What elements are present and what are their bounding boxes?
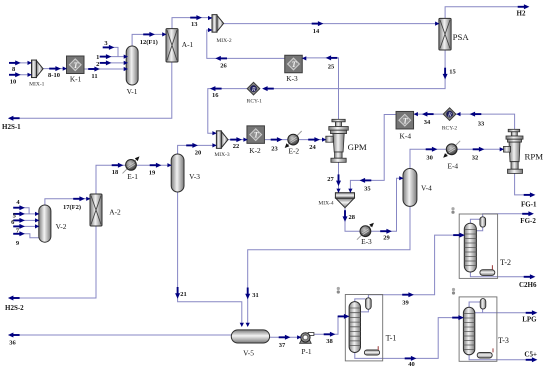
reactor GPM (326, 119, 349, 162)
arrow stream C2H6 (524, 274, 536, 279)
wire stream 17(F2) (45, 199, 90, 206)
svg-text:9: 9 (16, 240, 20, 247)
wire stream 15 to RCY-1 (266, 50, 445, 89)
svg-text:MIX-2: MIX-2 (216, 38, 232, 44)
wire T-2 condenser piping (470, 219, 480, 223)
svg-text:10: 10 (10, 79, 17, 86)
cooler E-4 (443, 141, 460, 158)
svg-text:39: 39 (402, 300, 409, 307)
arrow stream FG-1 (524, 192, 536, 197)
svg-text:23: 23 (271, 146, 278, 153)
arrow stream 4 (13, 205, 25, 210)
svg-text:K-2: K-2 (249, 146, 261, 155)
svg-text:H2S-1: H2S-1 (2, 123, 21, 131)
svg-text:15: 15 (449, 69, 456, 76)
svg-text:V-4: V-4 (421, 184, 432, 193)
svg-text:1: 1 (96, 54, 99, 61)
column block T-2 (459, 214, 497, 278)
svg-text:A-2: A-2 (109, 207, 121, 216)
svg-text:LPG: LPG (522, 316, 537, 324)
svg-text:FG-2: FG-2 (520, 217, 536, 225)
wire stream 31 V-4 bottoms to V-5 (248, 206, 410, 326)
svg-text:24: 24 (309, 144, 316, 151)
mixer MIX-2 (212, 15, 224, 33)
svg-text:31: 31 (252, 292, 259, 299)
arrow stream 33 (470, 112, 482, 117)
svg-text:K-4: K-4 (400, 132, 412, 141)
arrow stream 10 (9, 72, 21, 77)
vessel V-1 (126, 46, 138, 85)
svg-text:36: 36 (9, 340, 16, 347)
arrow stream 17(F2) (73, 196, 85, 201)
vessel V-4 (403, 169, 417, 207)
arrow stream 1 (100, 54, 112, 59)
arrow stream 2 (100, 60, 112, 65)
wire stream 10 (10, 74, 32, 76)
wire T-1 condenser piping (355, 299, 366, 302)
badge T-3 (452, 288, 455, 295)
compressor K-3 (285, 55, 303, 73)
wire stream FG-2 (483, 214, 528, 217)
arrow stream FG-2 (522, 211, 534, 216)
svg-text:A-1: A-1 (182, 40, 194, 49)
svg-text:H2S-2: H2S-2 (5, 304, 24, 312)
svg-text:T-1: T-1 (386, 334, 397, 343)
inlet heads (28, 61, 32, 65)
arrow stream 9 (13, 231, 25, 236)
svg-text:19: 19 (149, 170, 156, 177)
wire stream 2 (102, 62, 128, 64)
arrow stream 20 (186, 143, 198, 148)
wire stream 14 (224, 23, 439, 25)
arrow stream 25 (326, 55, 338, 60)
wire stream 35 K-4 out to MIX-4 (350, 115, 396, 193)
svg-text:K-3: K-3 (286, 74, 298, 83)
arrow stream 5 (13, 211, 25, 216)
arrow stream 31 (245, 288, 250, 300)
column PSA (439, 18, 451, 50)
arrow into RCY-1 (262, 86, 274, 91)
arrow stream 32 (473, 147, 485, 152)
svg-text:27: 27 (327, 176, 334, 183)
svg-text:29: 29 (383, 235, 390, 242)
wire stream 36 (9, 334, 234, 336)
wire stream 19 (131, 164, 171, 166)
arrow stream 6 (13, 218, 25, 223)
vessel V-5 (231, 330, 269, 343)
arrow stream 22 (230, 137, 242, 142)
wire stream 3 (104, 47, 118, 56)
wire stream 4 (15, 208, 29, 214)
svg-text:37: 37 (279, 342, 286, 349)
wire stream 34 (413, 113, 443, 115)
column A-2 (90, 194, 102, 226)
svg-text:33: 33 (478, 121, 485, 128)
svg-text:28: 28 (349, 214, 356, 221)
wire T-3 condenser piping (469, 302, 480, 308)
arrow T-2 feed (453, 233, 465, 238)
svg-text:C2H6: C2H6 (519, 281, 537, 289)
wire stream 6 (15, 219, 39, 221)
arrow stream 30 (426, 147, 438, 152)
svg-text:12(F1): 12(F1) (140, 39, 158, 46)
vessel V-2 (39, 205, 51, 242)
svg-text:E-2: E-2 (288, 147, 299, 156)
energy tick T-3 reboiler (492, 348, 494, 352)
svg-text:22: 22 (233, 143, 240, 150)
wire stream 7 (15, 225, 39, 227)
svg-text:V-5: V-5 (243, 349, 254, 358)
svg-text:34: 34 (424, 119, 431, 126)
wire stream C5+ T-3 bottoms (469, 355, 531, 360)
wire stream 13 (172, 18, 212, 29)
svg-text:4: 4 (16, 199, 20, 206)
svg-text:21: 21 (180, 291, 187, 298)
arrow stream 18 (112, 163, 124, 168)
arrow stream 16 (210, 86, 222, 91)
arrow stream 39 (402, 292, 414, 297)
arrow stream 12(F1) (143, 32, 155, 37)
reactor RPM (504, 129, 524, 173)
arrow stream 15 (443, 68, 448, 80)
wire stream 33 RPM overhead (456, 114, 515, 129)
recycle RCY-2 (443, 108, 456, 121)
svg-text:FG-1: FG-1 (521, 200, 537, 208)
svg-text:32: 32 (472, 155, 479, 162)
wire stream C2H6 T-2 bottoms (470, 272, 529, 277)
arrow stream H2S-1 (8, 116, 20, 121)
svg-text:30: 30 (426, 155, 433, 162)
svg-text:20: 20 (195, 150, 202, 157)
wire stream H2S-2 from A-2 bottoms (9, 226, 96, 299)
svg-text:C5+: C5+ (524, 350, 537, 358)
wire stream 27 (338, 162, 340, 193)
svg-text:V-2: V-2 (56, 222, 67, 231)
badge T-2 (451, 207, 454, 214)
badge T-1 (337, 287, 340, 294)
svg-text:18: 18 (112, 169, 119, 176)
svg-text:V-3: V-3 (189, 172, 200, 181)
svg-text:25: 25 (328, 64, 335, 71)
wire stream 25 GPM overhead (302, 58, 338, 119)
svg-text:K-1: K-1 (70, 75, 82, 84)
svg-text:V-1: V-1 (127, 87, 138, 96)
wire T-1 reflux (361, 309, 369, 312)
svg-text:E-1: E-1 (127, 172, 138, 181)
arrow stream 37 (279, 335, 291, 340)
arrow stream 35 (360, 178, 372, 183)
heater E-3 (357, 223, 374, 240)
wire stream 16 (208, 89, 248, 134)
svg-text:E-4: E-4 (447, 162, 458, 171)
wire stream 39 T-1 overhead to T-2 (368, 235, 464, 298)
arrow stream 28 (343, 210, 348, 222)
mixer MIX-3 (216, 131, 228, 149)
wire stream H2 (445, 7, 528, 19)
arrow stream 19 (150, 163, 162, 168)
wire stream 21 V-3 bottoms to V-5 (178, 192, 242, 327)
svg-text:MIX-4: MIX-4 (318, 201, 334, 207)
wire stream 11 (84, 68, 127, 70)
wire T-2 reflux (476, 227, 482, 231)
arrow stream 29 (380, 229, 392, 234)
arrow stream 3 (103, 45, 115, 50)
wire RPM bottoms to FG-1 (515, 173, 534, 195)
wire stream 12(F1) (132, 34, 166, 46)
wire stream 38 (314, 316, 350, 334)
wire stream 28 (345, 208, 365, 232)
svg-text:11: 11 (91, 73, 97, 80)
compressor K-2 (247, 126, 265, 144)
svg-text:RPM: RPM (525, 152, 544, 162)
arrow stream H2 (518, 4, 530, 9)
svg-text:38: 38 (326, 338, 333, 345)
svg-text:MIX-3: MIX-3 (214, 152, 230, 158)
svg-text:T-3: T-3 (498, 336, 509, 345)
arrow stream 8-10 (49, 66, 61, 71)
compressor K-4 (396, 111, 414, 129)
arrow stream 24 (308, 137, 320, 142)
wire stream 23 (265, 139, 293, 141)
svg-text:8: 8 (12, 66, 16, 73)
svg-text:RCY-1: RCY-1 (247, 99, 263, 105)
arrow stream 8 (9, 60, 21, 65)
cooler E-2 (285, 131, 302, 148)
arrow stream C5+ (526, 357, 538, 362)
svg-text:13: 13 (191, 21, 198, 28)
arrow stream 38 (324, 332, 336, 337)
wire stream 1 (102, 56, 128, 58)
wire stream 32 (452, 148, 504, 150)
arrow stream 11 (88, 67, 100, 72)
wire stream 40 T-1 bottoms to T-3 (355, 318, 464, 359)
mixer MIX-4 (335, 193, 354, 208)
arrow stream 34 (422, 112, 434, 117)
wire stream 18 A-2 overhead to E-1 (96, 165, 131, 194)
svg-text:P-1: P-1 (301, 347, 312, 356)
wire stream 26 (207, 30, 285, 58)
arrow T-1 feed (338, 314, 350, 319)
arrow stream 13 (190, 15, 202, 20)
arrow stream 26 (215, 56, 227, 61)
arrow stream 21 (175, 287, 180, 299)
heater E-1 (123, 156, 140, 173)
svg-text:MIX-1: MIX-1 (29, 82, 45, 88)
wire stream LPG (475, 309, 531, 313)
arrow stream H2S-2 (8, 296, 20, 301)
svg-text:RCY-2: RCY-2 (442, 126, 458, 132)
wire stream 20 (178, 145, 217, 154)
arrow stream 36 (8, 333, 20, 338)
svg-text:35: 35 (364, 186, 371, 193)
wire stream 9 (15, 234, 39, 238)
svg-text:GPM: GPM (348, 142, 367, 152)
svg-text:2: 2 (96, 61, 99, 68)
vessel V-3 (171, 154, 184, 192)
compressor K-1 (67, 56, 85, 74)
recycle RCY-1 (247, 82, 260, 95)
mixer MIX-1 (32, 60, 44, 78)
arrow stream 14 (312, 21, 324, 26)
svg-text:T-2: T-2 (500, 258, 511, 267)
wire stream 37 (267, 336, 301, 338)
column A-1 (166, 29, 178, 62)
wire stream 29 (365, 178, 403, 231)
column block T-3 (459, 297, 497, 361)
svg-text:H2: H2 (517, 9, 526, 17)
svg-text:8-10: 8-10 (48, 72, 60, 79)
svg-text:3: 3 (104, 40, 108, 47)
wire stream 22 (228, 139, 247, 141)
svg-text:40: 40 (408, 361, 415, 368)
arrow stream LPG (526, 310, 538, 315)
wire stream 8 (10, 62, 32, 64)
pump P-1 (300, 333, 314, 344)
svg-text:PSA: PSA (453, 32, 470, 42)
arrow stream 27 (336, 174, 341, 186)
arrow stream 40 (405, 356, 417, 361)
arrow stream 23 (271, 137, 283, 142)
wire stream H2S-1 from A-1 bottoms (9, 62, 172, 118)
svg-text:26: 26 (220, 63, 227, 70)
wire stream 5 (15, 213, 39, 215)
energy tick T-2 reboiler (491, 265, 493, 270)
wire stream 24 (293, 139, 326, 141)
arrow T-3 feed (452, 315, 464, 320)
svg-text:17(F2): 17(F2) (63, 204, 81, 211)
svg-text:16: 16 (212, 92, 219, 99)
column block T-1 (345, 295, 382, 361)
arrow stream 7 (13, 224, 25, 229)
wire stream 30 (410, 149, 446, 169)
wire stream 8-10 (43, 68, 66, 70)
energy tick T-1 reboiler (377, 346, 379, 350)
svg-text:14: 14 (313, 28, 320, 35)
svg-text:E-3: E-3 (361, 237, 372, 246)
